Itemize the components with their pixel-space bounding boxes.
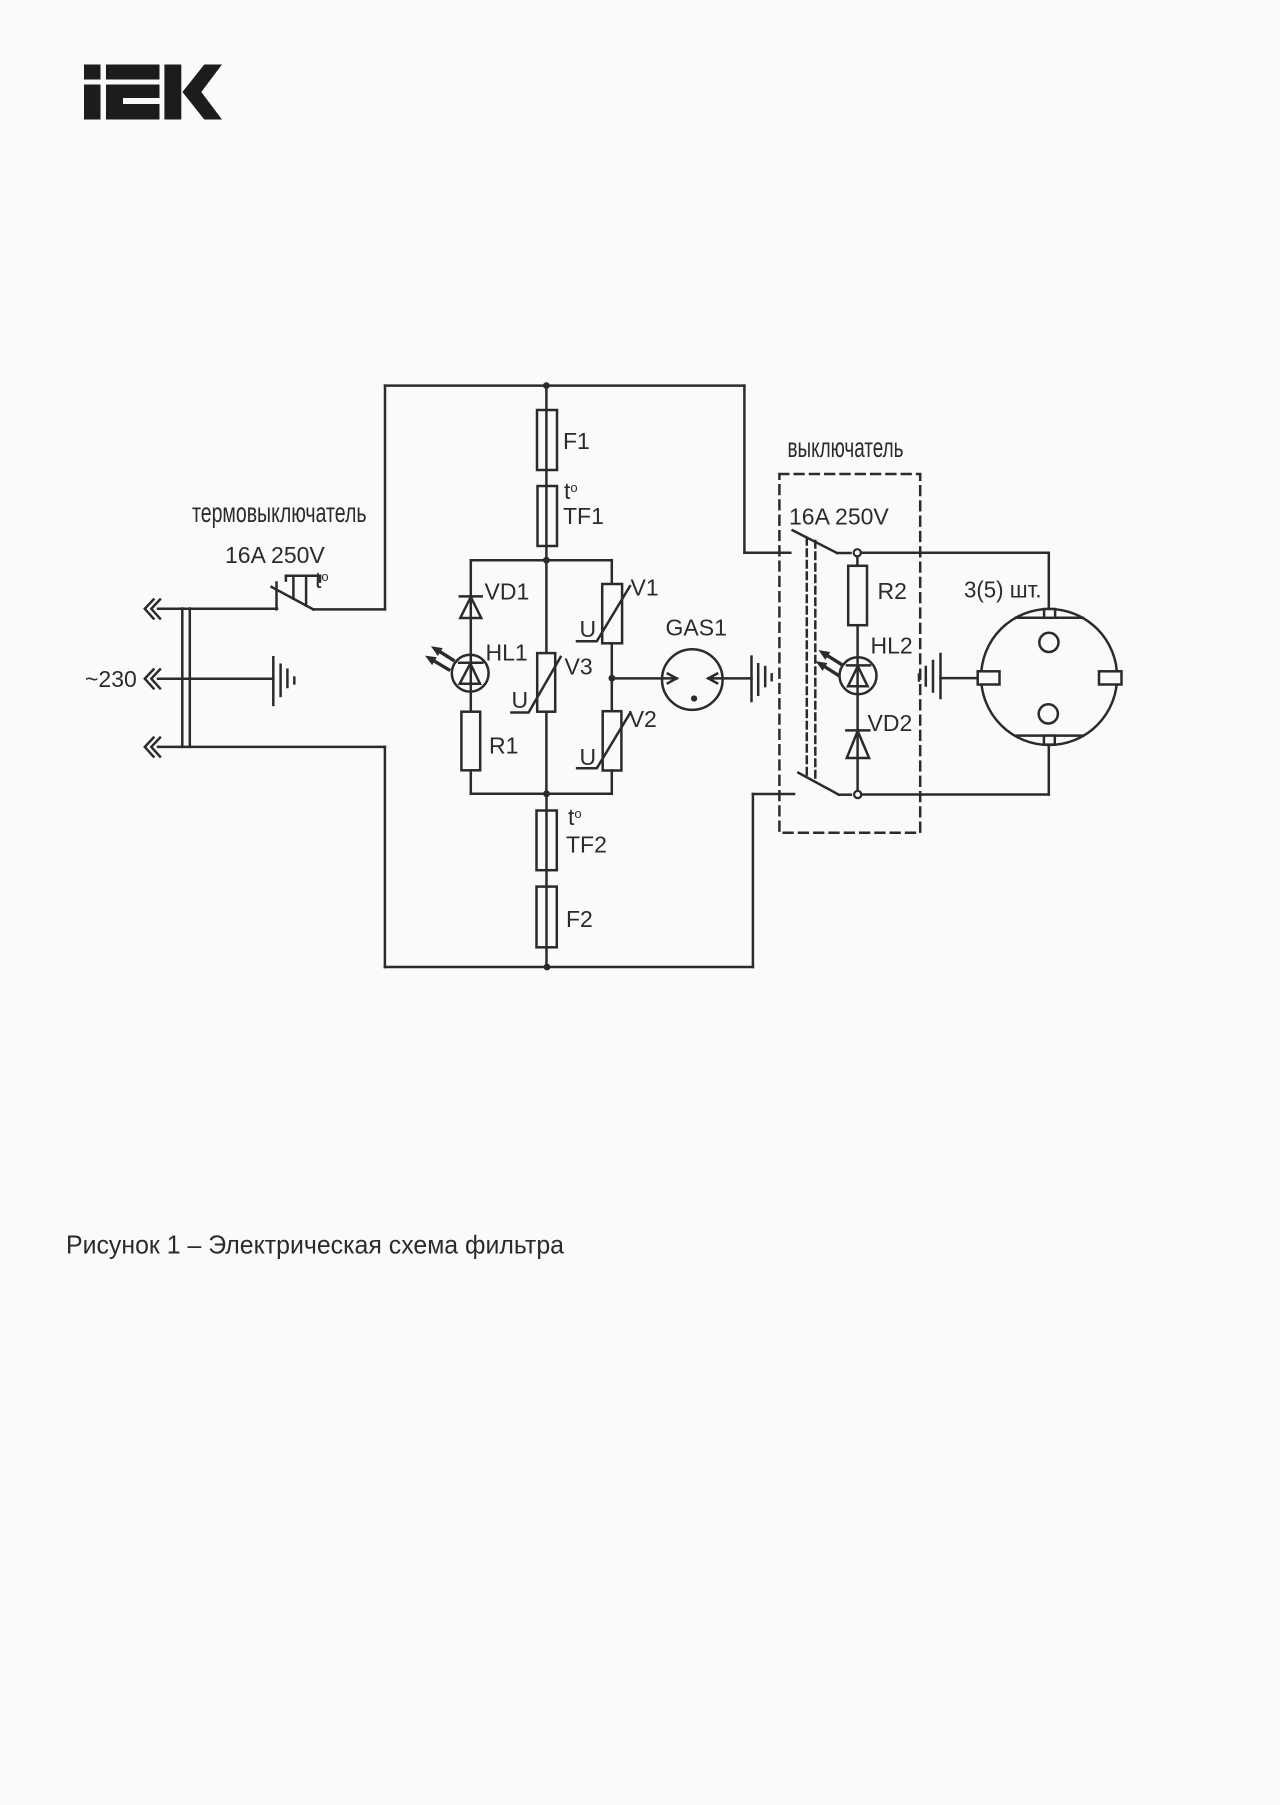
- node: input chevron N: [145, 738, 160, 757]
- wire: V3 branch lower: [545, 712, 548, 794]
- svg-text:TF2: TF2: [566, 832, 607, 858]
- node: input chevron L (phase): [145, 600, 160, 619]
- switch pole 1 contact: [854, 549, 861, 556]
- svg-text:3(5) шт.: 3(5) шт.: [964, 577, 1042, 603]
- GAS1 electrode dot: [691, 695, 697, 701]
- wire: V1 to V2: [611, 643, 614, 711]
- switch coupling dashed link: [807, 538, 816, 782]
- LED HL1 arrows: [425, 646, 453, 669]
- LED HL2 arrows: [816, 650, 841, 675]
- svg-text:VD1: VD1: [485, 579, 530, 605]
- wire: switch pole 2 to socket: [862, 793, 1049, 796]
- wire: network left branch: [470, 560, 473, 712]
- node: input chevron PE: [145, 669, 160, 688]
- switch pole 1 blade: [793, 530, 851, 553]
- svg-text:HL1: HL1: [486, 640, 528, 666]
- svg-text:VD2: VD2: [868, 710, 913, 736]
- LED HL2: [840, 657, 877, 694]
- wire: phase input to thermal switch: [158, 608, 277, 611]
- svg-text:16A 250V: 16A 250V: [225, 542, 325, 568]
- varistor V2: [577, 711, 630, 770]
- svg-text:F2: F2: [566, 906, 593, 932]
- svg-text:HL2: HL2: [871, 633, 913, 659]
- svg-text:выключатель: выключатель: [788, 432, 904, 463]
- wire: top rail drop to switch: [743, 386, 746, 553]
- socket hole bottom: [1039, 704, 1058, 723]
- wire: R1 to network bottom rail: [470, 770, 473, 794]
- wire: top rail: [385, 384, 744, 387]
- varistor V1: [577, 584, 630, 643]
- svg-text:V3: V3: [565, 654, 593, 680]
- ground (GAS1 earth): [752, 657, 772, 701]
- svg-text:R1: R1: [489, 733, 518, 759]
- socket top contact tab: [1044, 609, 1055, 618]
- thermal fuse TF1: [538, 486, 558, 546]
- diode VD2: [846, 730, 869, 758]
- node C: network bottom junction: [543, 790, 550, 797]
- wire: switch pole 1 to R2: [856, 556, 859, 565]
- svg-text:GAS1: GAS1: [666, 615, 727, 641]
- wire: network top rail: [471, 559, 612, 562]
- svg-text:TF1: TF1: [563, 503, 604, 529]
- wire: network bottom rail: [471, 793, 612, 796]
- wire: ground arrow into GAS1: [708, 674, 751, 684]
- socket hole top: [1039, 633, 1058, 652]
- wire: rail to switch pole 1: [744, 552, 790, 555]
- wire: R2 to VD2 column: [856, 625, 859, 794]
- wire: input cable line 2: [189, 609, 192, 747]
- svg-text:R2: R2: [878, 578, 907, 604]
- ground (input PE earth): [158, 677, 273, 680]
- svg-text:to: to: [315, 567, 329, 593]
- thermal switch SF (термовыключатель): [272, 576, 320, 610]
- resistor R1: [461, 712, 480, 771]
- switch pole 2 contact: [854, 791, 861, 798]
- thermal fuse TF2: [537, 811, 557, 871]
- ground (socket earth): [919, 654, 941, 698]
- svg-text:U: U: [512, 687, 529, 713]
- wire: bottom rail: [385, 966, 753, 969]
- wire: N input to bottom-left riser: [158, 746, 385, 749]
- svg-text:to: to: [568, 804, 582, 830]
- wire: V3 branch upper: [545, 560, 548, 653]
- svg-text:to: to: [564, 478, 578, 504]
- wire: V1/V2 branch upper: [611, 560, 614, 584]
- IEK logo: [84, 65, 222, 120]
- svg-text:V1: V1: [631, 575, 659, 601]
- fuse F2: [537, 887, 557, 948]
- wire: earth to socket: [941, 677, 978, 680]
- wire: socket bottom feed: [1048, 745, 1051, 795]
- varistor V3: [511, 653, 560, 712]
- wire: fuse column TF2/F2: [545, 794, 548, 967]
- wire: bottom-left riser: [384, 747, 387, 967]
- svg-text:U: U: [580, 744, 597, 770]
- fuse F1: [537, 410, 557, 470]
- wire: fuse column F1/TF1: [545, 386, 548, 561]
- resistor R2: [848, 566, 867, 625]
- wire: node D arrow into GAS1: [612, 674, 677, 684]
- node A: top rail junction: [543, 382, 550, 389]
- wire: left riser to top rail: [384, 386, 387, 610]
- socket bottom contact tab: [1044, 736, 1055, 745]
- switch enclosure dashed box: [779, 474, 920, 833]
- wire: bottom-right riser: [752, 794, 755, 967]
- svg-text:~230: ~230: [85, 666, 137, 692]
- diode VD1: [460, 596, 482, 618]
- socket right earth tab: [1099, 671, 1122, 684]
- LED HL1: [452, 655, 489, 692]
- socket XS (Schuko outlet): [981, 609, 1117, 745]
- wire: input cable line 1: [181, 609, 184, 747]
- wire: switch pole 1 to socket: [861, 552, 1049, 555]
- svg-text:U: U: [580, 616, 597, 642]
- wire: bottom riser to switch pole 2: [753, 793, 794, 796]
- node E: bottom rail junction: [544, 964, 551, 971]
- switch pole 2 blade: [798, 773, 851, 795]
- socket left earth tab: [978, 671, 1000, 684]
- svg-text:термовыключатель: термовыключатель: [192, 497, 367, 528]
- gas discharge tube GAS1: [662, 649, 723, 710]
- wire: V2 to network bottom rail: [611, 771, 614, 794]
- wire: thermal switch to riser: [314, 608, 386, 611]
- wire: socket top feed: [1048, 553, 1051, 610]
- svg-text:16A 250V: 16A 250V: [789, 504, 889, 530]
- node B: network top junction: [543, 557, 550, 564]
- node D: varistor midpoint junction: [609, 675, 616, 682]
- svg-text:V2: V2: [629, 706, 657, 732]
- svg-text:F1: F1: [563, 428, 590, 454]
- svg-text:Рисунок 1 – Электрическая схем: Рисунок 1 – Электрическая схема фильтра: [66, 1230, 565, 1260]
